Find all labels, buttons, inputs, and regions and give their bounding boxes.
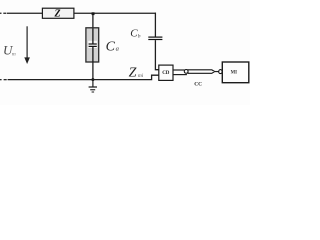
wire CD right stub lower — [173, 74, 187, 76]
wire CD right stub upper — [173, 69, 185, 71]
svg-text:CC: CC — [194, 81, 202, 87]
label U source — [3, 42, 16, 57]
wire bottom rail dashed lead-in — [0, 79, 7, 80]
resistor Z — [42, 8, 74, 19]
wire bottom rail — [8, 75, 159, 79]
svg-text:CD: CD — [162, 71, 170, 76]
svg-text:m: m — [12, 51, 16, 57]
label Cb — [130, 27, 140, 39]
svg-text:Z: Z — [129, 66, 137, 81]
wire Ca top lead — [92, 13, 94, 28]
svg-text:a: a — [116, 46, 119, 53]
wire right branch vertical (bottom) to CD — [155, 40, 158, 70]
node junction bottom — [91, 78, 94, 81]
ground — [89, 80, 97, 93]
svg-text:MI: MI — [231, 70, 238, 75]
svg-text:mi: mi — [138, 73, 144, 79]
coaxial cable CC body — [188, 70, 215, 73]
svg-text:b: b — [138, 34, 141, 40]
measuring instrument MI — [222, 62, 249, 83]
arrow U direction — [24, 26, 30, 64]
capacitor Ca (shielded box) — [86, 28, 99, 62]
wire right branch vertical (top) — [154, 13, 156, 37]
node junction top (Ca tap) — [92, 12, 95, 15]
wire Ca bottom lead — [92, 62, 94, 80]
wire top rail right segment — [74, 12, 156, 14]
capacitor Cb — [148, 37, 162, 41]
converting device CD — [159, 65, 173, 80]
svg-text:C: C — [106, 39, 116, 54]
label Zmi — [129, 66, 144, 81]
label Ca — [106, 39, 119, 54]
svg-text:Z: Z — [54, 9, 61, 20]
coax connector left — [184, 70, 188, 74]
wire cable to MI — [215, 71, 219, 73]
wire top rail left segment — [7, 12, 43, 14]
wire top rail dashed lead-in — [0, 13, 6, 14]
coax connector right — [219, 70, 222, 74]
